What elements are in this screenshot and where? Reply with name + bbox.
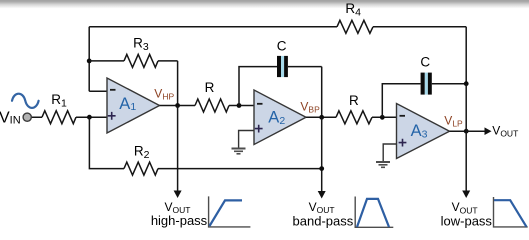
svg-text:VOUT: VOUT — [492, 124, 518, 139]
wire: VBP down to band-pass arrow — [321, 117, 323, 191]
svg-text:R: R — [205, 80, 215, 95]
node VLP — [464, 129, 469, 134]
wire: A3 output to VLP node — [450, 130, 467, 132]
wire: VHP down to high-pass arrow — [177, 106, 179, 192]
wire: A2 integrator capacitor loop — [239, 67, 322, 118]
ground (A3) — [376, 162, 390, 167]
svg-text:VLP: VLP — [444, 113, 463, 128]
svg-text:R3: R3 — [133, 36, 149, 53]
svg-text:low-pass: low-pass — [441, 214, 493, 229]
capacitor C (A3) — [420, 54, 431, 94]
svg-text:R1: R1 — [51, 92, 67, 109]
svg-text:R2: R2 — [134, 144, 150, 161]
icon: high-pass response — [209, 196, 251, 227]
wire: R3 loop — [89, 61, 177, 106]
wire: A1 output to R — [160, 105, 255, 107]
op-amp A3 — [397, 104, 450, 159]
node VHP — [175, 103, 180, 108]
node: A2 inverting input junction — [237, 103, 242, 108]
svg-text:C: C — [420, 54, 430, 69]
wire: A2 output to R — [306, 116, 397, 118]
node: R3/R4 junction on A1 inverting branch — [87, 59, 92, 64]
input terminal node — [23, 113, 31, 121]
resistor R2 — [124, 144, 158, 176]
node: VBP to bottom rail junction — [319, 166, 324, 171]
wire: A2 non-inverting input to ground — [239, 131, 254, 148]
label VOUT band-pass — [293, 200, 354, 228]
capacitor C (A2) — [277, 38, 288, 77]
arrow: band-pass output — [318, 191, 326, 199]
svg-text:band-pass: band-pass — [293, 213, 354, 228]
svg-text:VHP: VHP — [154, 87, 174, 102]
source VIN sine symbol — [12, 94, 39, 108]
icon: low-pass response — [494, 197, 528, 227]
resistor R1 — [42, 92, 76, 124]
wire: A1 inverting input branch (vertical x=89) — [89, 27, 107, 91]
label VOUT low-pass — [441, 200, 493, 229]
wire: top feedback rail (R4 run) — [89, 27, 466, 84]
wire: junction down to bottom feedback rail — [89, 117, 321, 168]
icon: band-pass response — [355, 197, 393, 228]
node: A3 inverting input junction — [380, 115, 385, 120]
resistor R (second) — [336, 93, 372, 124]
label VOUT high-pass — [151, 200, 208, 228]
svg-text:R: R — [349, 93, 359, 108]
svg-text:VIN: VIN — [0, 110, 21, 127]
svg-text:C: C — [277, 38, 287, 53]
node VBP — [319, 115, 324, 120]
arrow: VOUT right — [485, 127, 492, 135]
node: cap loop to VLP rail junction — [464, 81, 469, 86]
arrow: low-pass output — [462, 191, 470, 199]
arrow: high-pass output — [174, 191, 182, 199]
svg-text:VBP: VBP — [300, 99, 320, 114]
ground (A2) — [232, 149, 246, 154]
op-amp A2 — [254, 90, 306, 145]
wire: VLP down to low-pass arrow — [465, 84, 467, 191]
svg-text:high-pass: high-pass — [151, 213, 208, 228]
wire: A3 integrator capacitor loop — [382, 84, 466, 118]
op-amp A1 — [107, 78, 160, 133]
wire: VLP to output arrow — [466, 130, 485, 132]
resistor R (first) — [195, 80, 229, 112]
resistor R4 — [337, 1, 373, 33]
resistor R3 — [124, 36, 158, 68]
node: junction at A1 + input — [87, 115, 92, 120]
wire VIN to A1 non-inverting input — [32, 116, 107, 118]
wire: A3 non-inverting input to ground — [383, 144, 396, 161]
